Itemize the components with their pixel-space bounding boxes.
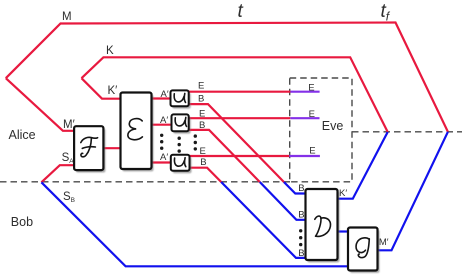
svg-text:M: M (62, 11, 72, 23)
svg-text:A′: A′ (160, 152, 168, 163)
svg-text:K: K (106, 45, 114, 57)
svg-text:B: B (198, 94, 204, 105)
svg-text:SA: SA (62, 152, 75, 165)
svg-text:Alice: Alice (9, 128, 36, 142)
svg-text:M′: M′ (63, 119, 75, 131)
svg-text:B: B (298, 183, 304, 194)
svg-text:A′: A′ (160, 115, 168, 126)
svg-text:A′: A′ (161, 89, 169, 100)
svg-text:t: t (238, 1, 244, 22)
svg-text:B: B (200, 157, 206, 168)
svg-text:Bob: Bob (11, 215, 33, 229)
svg-text:tf: tf (381, 1, 391, 24)
svg-text:Eve: Eve (322, 119, 344, 133)
svg-text:B: B (199, 120, 205, 131)
svg-text:E: E (200, 146, 206, 157)
svg-text:M′: M′ (379, 237, 389, 248)
svg-text:B: B (298, 248, 304, 259)
svg-text:K′: K′ (108, 85, 118, 97)
svg-text:SB: SB (63, 191, 75, 204)
svg-text:E: E (198, 81, 204, 92)
svg-text:E: E (199, 109, 205, 120)
svg-text:E: E (309, 109, 315, 120)
svg-text:E: E (309, 145, 315, 156)
svg-text:K′: K′ (339, 188, 347, 199)
svg-text:E: E (308, 83, 314, 94)
svg-text:B: B (298, 209, 304, 220)
